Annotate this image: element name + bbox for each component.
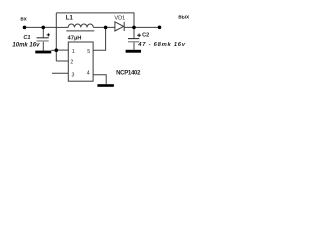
capacitor C1 stem bottom: [42, 42, 44, 51]
IC U1 NCP1402 box: [68, 42, 93, 81]
node: C2 junction dot: [132, 26, 136, 30]
capacitor C1 stem top: [42, 27, 44, 37]
wire: pin 2 rung: [56, 60, 68, 62]
svg-text:4: 4: [87, 71, 90, 77]
inductor L1 coil: [68, 24, 93, 27]
inductor L1 core line: [66, 30, 94, 32]
node: вых terminal dot: [158, 26, 162, 30]
capacitor C1 plus sign: [47, 33, 50, 36]
svg-text:NCP1402: NCP1402: [116, 70, 141, 76]
svg-text:5: 5: [87, 49, 90, 55]
wire: ground bar link to rail dot: [51, 49, 56, 51]
wire: pin 4 to ground: [93, 75, 106, 84]
ground bar of pin 4: [97, 84, 114, 87]
wire: left rail down to pin 2: [55, 13, 57, 61]
svg-text:3: 3: [72, 72, 75, 78]
svg-text:10mk 16v: 10mk 16v: [12, 42, 40, 48]
ground bar of C1: [35, 51, 51, 54]
svg-text:вых: вых: [178, 14, 189, 20]
wire: pin 1 rung: [56, 49, 68, 51]
svg-text:вх: вх: [20, 17, 26, 23]
capacitor C1 plates: [37, 37, 49, 39]
wire: pin 5 to switch node: [93, 27, 106, 50]
svg-text:VD1: VD1: [114, 16, 125, 22]
capacitor C2 stem bottom: [133, 43, 135, 50]
node: C1 junction dot: [42, 26, 46, 30]
svg-text:C1: C1: [23, 35, 30, 41]
svg-text:1: 1: [72, 49, 75, 55]
svg-text:L1: L1: [66, 16, 74, 22]
wire: mid wire rail to coil: [56, 26, 68, 28]
node: ground rail dot: [55, 48, 59, 52]
node: switch node dot: [104, 26, 108, 30]
wire: pin 3 stub: [52, 72, 68, 74]
wire: coil to diode anode: [93, 26, 115, 28]
wire: diode cathode to output dot: [125, 26, 160, 28]
diode VD1: [115, 22, 124, 31]
capacitor C2 plates: [128, 38, 139, 40]
svg-text:2: 2: [70, 60, 73, 66]
svg-text:47 - 68mk 16v: 47 - 68mk 16v: [137, 42, 185, 48]
capacitor C2 plus sign: [137, 34, 141, 38]
wire: top line over to output node, down to C2: [56, 13, 134, 38]
node: вх terminal dot: [23, 26, 27, 30]
ground bar of C2: [126, 50, 141, 53]
svg-text:47µH: 47µH: [68, 35, 82, 41]
svg-text:C2: C2: [142, 33, 149, 39]
wire: input wire from вх terminal to rail: [25, 26, 57, 28]
